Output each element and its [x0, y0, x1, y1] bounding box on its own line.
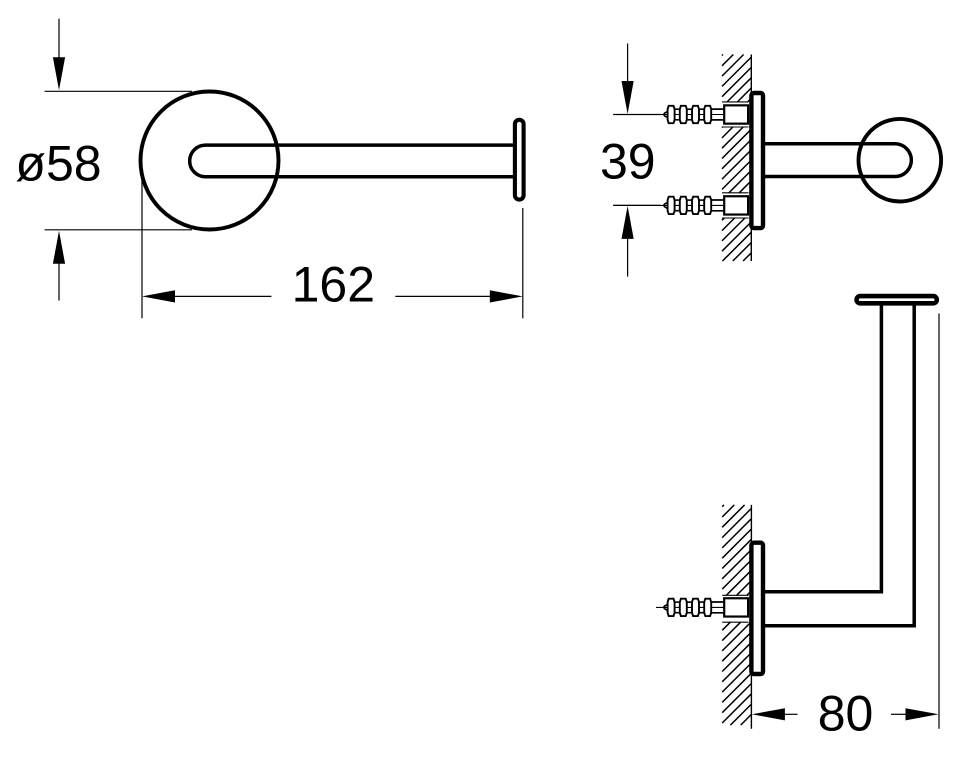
- dim 80 arrow right: [891, 713, 906, 715]
- dim 162 arrow left: [142, 290, 175, 302]
- svg-text:162: 162: [292, 257, 375, 313]
- dim 80 arrow left: [752, 708, 785, 720]
- drill hole outline screw 1: [722, 101, 749, 103]
- dim 39 arrow up: [627, 238, 629, 277]
- wall hatching (bottom view): [722, 505, 751, 725]
- dim 162 extension line left: [141, 174, 143, 318]
- bar (side view): [764, 144, 911, 177]
- dim 162 extension line right: [522, 208, 524, 318]
- mounting screw upper (side view): [613, 105, 748, 123]
- mounting screw lower (side view): [613, 196, 748, 214]
- dim ø58 arrow down: [58, 19, 60, 60]
- wall plate (bottom view, edge): [751, 543, 763, 674]
- wall plate (side view, edge): [751, 93, 763, 228]
- end cap disc (side view, face): [859, 119, 942, 202]
- dim 39 arrow down: [627, 44, 629, 85]
- end cap disc (bottom view, edge on top): [857, 296, 937, 303]
- svg-text:39: 39: [600, 134, 656, 190]
- wall hatching (side view): [722, 55, 751, 262]
- dim 80 extension line: [938, 314, 940, 729]
- wall surface line (side view): [750, 55, 752, 262]
- dim 39 line upper: [613, 114, 660, 116]
- dim ø58 extension line top: [45, 90, 192, 92]
- drill hole outline (bottom view): [722, 594, 748, 596]
- bar end cap disc (edge view): [515, 120, 524, 200]
- dim 162 arrow right: [395, 295, 490, 297]
- svg-text:80: 80: [818, 686, 874, 742]
- dim ø58 arrow up: [58, 262, 60, 301]
- dim ø58 extension line bottom: [45, 229, 192, 231]
- dim 39 line lower: [613, 204, 660, 206]
- wall plate circle (front view, dia 58): [141, 92, 279, 230]
- drill hole outline screw 2: [722, 192, 749, 194]
- L-shaped holder arm (bottom view): [765, 306, 915, 626]
- mounting screw (bottom view): [656, 598, 748, 616]
- svg-text:ø58: ø58: [15, 136, 101, 192]
- wall surface line (bottom view): [750, 505, 752, 729]
- roll holder bar (front view): [190, 145, 515, 177]
